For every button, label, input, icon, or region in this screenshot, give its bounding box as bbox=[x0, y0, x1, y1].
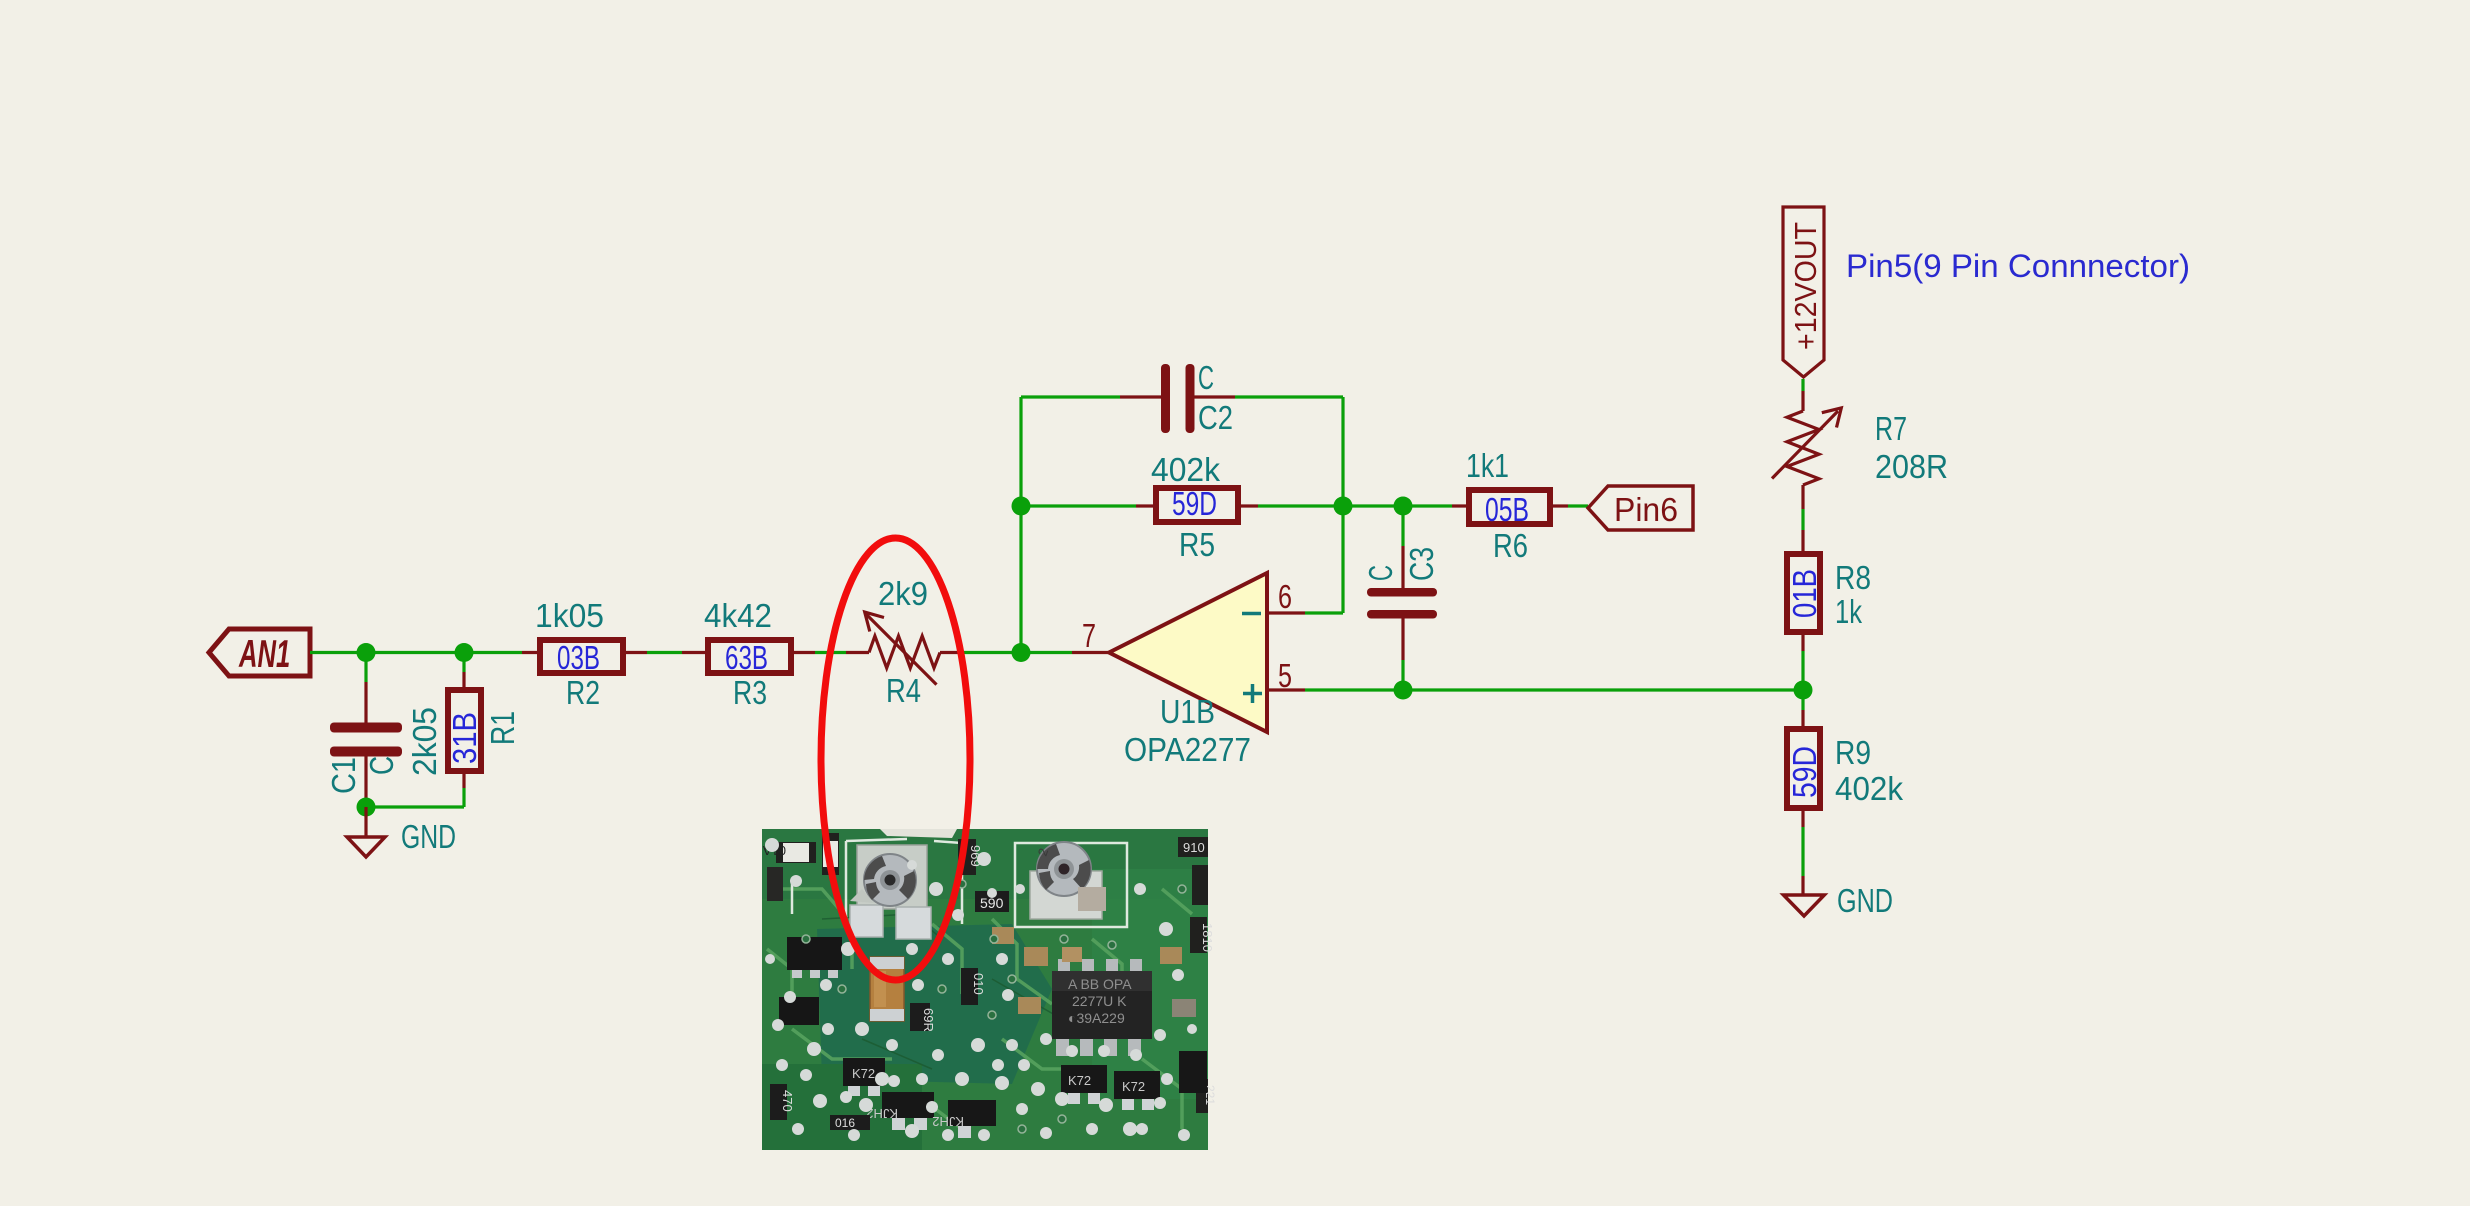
svg-text:R4: R4 bbox=[886, 672, 921, 709]
svg-text:R8: R8 bbox=[1835, 559, 1871, 596]
svg-text:4k42: 4k42 bbox=[704, 597, 772, 634]
svg-text:7: 7 bbox=[1082, 617, 1096, 654]
wire feedback to pin 6 bbox=[1305, 611, 1343, 614]
svg-text:R1: R1 bbox=[484, 711, 521, 745]
junction A bbox=[357, 643, 376, 662]
svg-text:R5: R5 bbox=[1179, 526, 1215, 563]
wire R1 bottom to C1 bottom bbox=[366, 805, 464, 808]
resistor R1 bbox=[406, 653, 521, 808]
junction G (C3 bottom) bbox=[1394, 681, 1413, 700]
svg-text:K72: K72 bbox=[1122, 1079, 1145, 1094]
svg-text:C: C bbox=[1362, 565, 1399, 581]
wire junction E to junction F bbox=[1343, 504, 1403, 507]
wire junction C to op-amp pin 7 bbox=[1021, 651, 1072, 654]
svg-text:C1: C1 bbox=[325, 757, 362, 794]
trimmer potentiometer photo right bbox=[1030, 842, 1102, 919]
feedback right vertical wire bbox=[1341, 397, 1344, 613]
wire junction A to junction B bbox=[366, 651, 464, 654]
svg-text:Pin5(9 Pin Connnector): Pin5(9 Pin Connnector) bbox=[1846, 248, 2190, 284]
svg-text:R3: R3 bbox=[733, 674, 767, 711]
red ellipse annotation bbox=[821, 538, 970, 980]
wire R7 to R8 bbox=[1801, 485, 1804, 509]
svg-text:402k: 402k bbox=[1835, 770, 1903, 807]
power symbol +12VOUT bbox=[1783, 207, 1824, 377]
svg-text:R9: R9 bbox=[1835, 734, 1871, 771]
junction C bbox=[1012, 643, 1031, 662]
svg-text:A BB OPA: A BB OPA bbox=[1068, 976, 1132, 992]
transistors photo bbox=[770, 1051, 1207, 1138]
PCB photo bbox=[762, 829, 1217, 1150]
global label AN1 bbox=[209, 629, 310, 676]
svg-text:01B: 01B bbox=[1786, 569, 1823, 618]
svg-text:+12VOUT: +12VOUT bbox=[1788, 222, 1823, 350]
junction B bbox=[455, 643, 474, 662]
potentiometer R4 bbox=[846, 575, 960, 709]
junction H (R8/R9) bbox=[1794, 681, 1813, 700]
svg-text:59D: 59D bbox=[1172, 485, 1217, 522]
orange capacitor photo bbox=[870, 957, 904, 1021]
wire R2 to R3 bbox=[647, 651, 682, 654]
svg-text:5: 5 bbox=[1278, 657, 1292, 694]
resistor R5 bbox=[1021, 451, 1343, 563]
svg-text:2k9: 2k9 bbox=[878, 575, 928, 612]
svg-text:2277U K: 2277U K bbox=[1072, 993, 1127, 1009]
svg-text:2k05: 2k05 bbox=[406, 707, 443, 776]
capacitor C1 bbox=[325, 653, 402, 808]
svg-text:1k05: 1k05 bbox=[535, 597, 604, 634]
svg-text:K72: K72 bbox=[1068, 1073, 1091, 1088]
pin 7 stub bbox=[1072, 651, 1109, 654]
resistor R9 bbox=[1786, 690, 1903, 876]
wire R4 to junction C bbox=[960, 651, 1021, 654]
svg-text:59D: 59D bbox=[1786, 746, 1823, 798]
svg-text:Pin6: Pin6 bbox=[1614, 491, 1678, 528]
capacitor C2 bbox=[1021, 359, 1343, 436]
svg-text:1810: 1810 bbox=[1200, 923, 1215, 952]
svg-text:910: 910 bbox=[1183, 840, 1205, 855]
svg-text:U1B: U1B bbox=[1160, 693, 1215, 730]
wire junction B to R2 bbox=[464, 651, 522, 654]
svg-text:470: 470 bbox=[780, 1090, 795, 1112]
trimmer potentiometer photo left bbox=[850, 845, 931, 939]
svg-text:R2: R2 bbox=[566, 674, 600, 711]
svg-text:R6: R6 bbox=[1493, 527, 1528, 564]
svg-text:63B: 63B bbox=[725, 639, 768, 676]
wire junction G to right column bbox=[1403, 688, 1803, 691]
junction F (C3 top) bbox=[1394, 497, 1413, 516]
svg-text:016: 016 bbox=[835, 1116, 855, 1130]
wire +12VOUT to R7 bbox=[1801, 379, 1804, 391]
resistor R3 bbox=[682, 597, 815, 711]
silkscreen boxes bbox=[846, 839, 962, 927]
svg-text:05B: 05B bbox=[1485, 491, 1529, 528]
wire R3 to R4 bbox=[815, 651, 846, 654]
small SMD components photo bbox=[763, 833, 1217, 1113]
svg-text:R7: R7 bbox=[1875, 410, 1907, 447]
wire pin5 row bbox=[1305, 688, 1403, 691]
resistor R2 bbox=[522, 597, 647, 711]
op-amp IC photo bbox=[1052, 959, 1152, 1056]
vias photo bbox=[802, 880, 1186, 1133]
junction E (feedback right, R5 row) bbox=[1334, 497, 1353, 516]
svg-text:010: 010 bbox=[971, 973, 986, 995]
wire AN1 to junction A bbox=[310, 651, 366, 654]
svg-text:C: C bbox=[363, 756, 400, 775]
svg-text:1k: 1k bbox=[1835, 593, 1862, 630]
pcb traces bbox=[767, 889, 1192, 1129]
svg-text:C3: C3 bbox=[1403, 547, 1440, 581]
resistor R8 bbox=[1786, 554, 1871, 681]
junction D (feedback left, R5 row) bbox=[1012, 497, 1031, 516]
svg-text:69R: 69R bbox=[921, 1008, 936, 1032]
ground GND right bbox=[1784, 876, 1894, 919]
svg-text:KJH2: KJH2 bbox=[932, 1114, 964, 1129]
svg-text:402k: 402k bbox=[1151, 451, 1220, 488]
resistor R6 bbox=[1403, 447, 1588, 564]
svg-text:31B: 31B bbox=[446, 712, 483, 764]
svg-text:AN1: AN1 bbox=[238, 633, 290, 676]
ground GND left bbox=[347, 807, 456, 857]
svg-text:C2: C2 bbox=[1198, 399, 1233, 436]
svg-text:GND: GND bbox=[401, 818, 456, 855]
svg-text:208R: 208R bbox=[1875, 448, 1948, 485]
op-amp U1B bbox=[1109, 573, 1305, 768]
solder pads photo bbox=[765, 838, 1197, 1141]
svg-text:OPA2277: OPA2277 bbox=[1124, 731, 1251, 768]
capacitor C3 bbox=[1362, 506, 1440, 690]
svg-text:6: 6 bbox=[1278, 578, 1292, 615]
svg-text:◐39A229: ◐39A229 bbox=[1068, 1010, 1125, 1026]
svg-text:03B: 03B bbox=[557, 639, 600, 676]
junction C1 bottom bbox=[357, 798, 376, 817]
label Pin6 bbox=[1588, 486, 1693, 530]
svg-text:C: C bbox=[1198, 359, 1214, 396]
potentiometer R7 bbox=[1772, 408, 1948, 485]
svg-text:GND: GND bbox=[1837, 882, 1893, 919]
svg-text:K72: K72 bbox=[852, 1066, 875, 1081]
svg-text:1k1: 1k1 bbox=[1466, 447, 1509, 484]
feedback left vertical wire bbox=[1019, 397, 1022, 653]
